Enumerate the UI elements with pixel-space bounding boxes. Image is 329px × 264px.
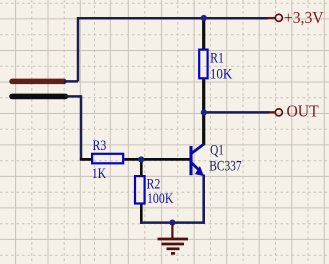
svg-text:Q1: Q1 [210,141,224,158]
ground bar 2 [162,243,185,246]
power port +3.3V lead [268,17,276,19]
svg-text:BC337: BC337 [209,157,242,174]
wire: R2 top stub [140,159,143,176]
junction: top rail / R1 [201,15,207,21]
wire: collector vertical, R1 to Q1 collector [202,79,205,145]
wire: bottom rail from R2 to emitter [140,221,204,224]
OUT port lead [269,111,275,113]
transistor Q1 base bar [189,146,192,175]
wire: electrode 1 lead [64,80,78,83]
ground bar 1 [158,238,189,241]
OUT port circle [275,109,282,116]
wire: emitter vertical down to bottom rail [202,175,205,224]
junction: base wire / R2 [138,156,144,162]
wire: base wire left of R3 [80,158,91,161]
wire: electrode 2 lead to corner [66,95,82,98]
wire: +3.3V top rail [78,17,268,20]
ground stem [171,223,173,239]
svg-text:OUT: OUT [287,103,319,120]
transistor Q1 emitter diagonal [191,162,199,169]
wire: left vertical down to R3 [80,95,83,159]
junction: bottom rail / ground [169,220,175,226]
resistor R1 body [199,50,207,79]
transistor Q1 emitter arrow [195,166,204,176]
wire: OUT wire [204,111,270,114]
electrode bar E1 (upper probe) [12,79,64,85]
svg-text:100K: 100K [147,190,174,206]
transistor Q1 collector diagonal [191,144,204,154]
svg-text:1K: 1K [92,165,107,181]
junction: collector / OUT [201,109,207,115]
svg-text:10K: 10K [210,66,232,82]
svg-text:R1: R1 [210,49,224,65]
ground bar 3 [167,247,180,250]
resistor R2 body [135,176,145,203]
wire: base wire from R3 to Q1 base [124,158,190,161]
svg-text:R3: R3 [92,137,106,153]
wire: left vertical from top rail down to electrode 1 [77,17,80,81]
wire: collector vertical, top rail to R1 [202,17,205,49]
svg-text:+3,3V: +3,3V [284,10,324,27]
power port +3.3V circle [275,14,282,21]
wire: R2 bottom stub [140,204,143,224]
resistor R3 body [92,154,123,164]
electrode bar E2 (lower probe) [12,94,66,100]
ground bar 4 [171,252,175,255]
